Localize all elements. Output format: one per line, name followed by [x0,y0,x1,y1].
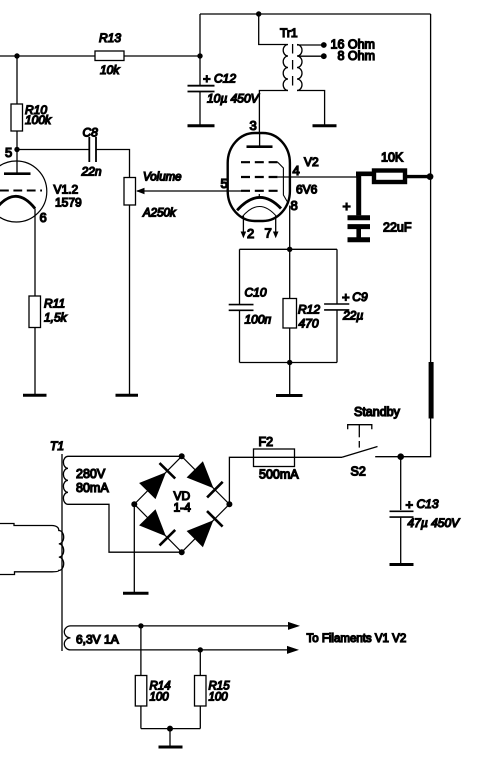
svg-text:Tr1: Tr1 [280,26,298,40]
ground: V2 cathode network [276,394,303,397]
svg-text:2: 2 [247,226,254,241]
wire: secondary top to 16 Ohm terminal [297,44,321,46]
node: hum-balance center dot [167,726,173,732]
resistor R10 [11,104,23,131]
capacitor 22uF (thick) [348,215,371,220]
terminal dot 8 Ohm [321,53,327,59]
tube V2 envelope [228,133,290,221]
node: V2 cathode network top dot [287,247,292,252]
svg-text:R13: R13 [99,31,121,45]
wire: C13 top lead [400,457,402,510]
switch S2 actuator [348,425,372,430]
svg-text:4: 4 [293,163,300,178]
svg-text:10µ 450V: 10µ 450V [207,92,260,106]
wire: R15 top lead [199,650,201,676]
node: bridge bottom vertex dot [179,549,185,555]
bridge rectifier VD 1-4 frame [134,456,229,552]
V1 plate lead [16,150,18,173]
wire: top rail left vertical [199,14,201,85]
V2 grid row 3 (control) [241,190,278,192]
node: bridge right vertex dot [226,501,232,507]
svg-text:1-4: 1-4 [174,501,192,515]
svg-text:10k: 10k [100,63,120,77]
V2 beam-plate bus to cathode [278,162,288,201]
svg-text:6: 6 [40,210,47,225]
potentiometer Volume A250k [124,178,136,206]
svg-text:1579: 1579 [55,196,82,210]
resistor R13 [95,51,124,61]
diode VD3 (left-bottom) [139,509,166,536]
svg-text:+: + [406,497,414,512]
svg-text:T1: T1 [50,439,64,453]
wire: pot bottom to ground [129,205,131,395]
Volume wiper arrow [136,188,145,195]
wire: switch to rail node [375,456,401,458]
ground: Volume pot [116,394,139,397]
wire: 280V bottom to bridge bottom vertex [68,504,182,552]
wire: cathode network bottom rail [240,362,338,364]
T1 HV secondary winding 280V [63,456,68,504]
svg-text:100: 100 [150,692,170,704]
svg-text:F2: F2 [259,435,274,449]
wire: C10 top lead [239,249,241,304]
wire: V2 pin 8 cathode down to RC network [289,206,291,250]
svg-text:R12: R12 [298,303,320,317]
svg-text:1,5k: 1,5k [44,311,68,325]
wire: HT rail lower vertical to switch node [401,419,431,457]
node: 10K to HT rail dot [427,173,434,180]
svg-text:80mA: 80mA [76,481,109,495]
V2 grid row 2 (screen) [241,176,278,178]
wire: C9 top lead [336,249,338,304]
svg-text:8: 8 [291,198,298,213]
ground: C13 [390,563,414,566]
wire: node to C8 [17,149,89,151]
wire: top rail to Tr1 primary [259,14,288,45]
svg-text:10K: 10K [381,151,404,165]
node: R14 tap dot [138,623,143,628]
wire: V2 pin 4 (screen) to 10K node [278,176,357,178]
wire: filament bottom wire [71,649,288,651]
svg-text:22µ: 22µ [342,309,363,323]
svg-text:100: 100 [209,692,229,704]
svg-text:V1.2: V1.2 [54,183,79,197]
V2 cathode [237,197,281,210]
V2 cathode stub [258,194,260,198]
resistor R14 [135,676,147,707]
capacitor C8 [89,137,96,162]
node: bridge top vertex dot [179,453,185,459]
ground: R11 [23,394,47,397]
svg-text:S2: S2 [351,465,366,479]
wire: hum-balance bottom rail [141,728,200,730]
capacitor C9 [324,304,349,310]
svg-text:3: 3 [250,118,257,133]
wire: R11 bottom lead [34,328,36,395]
wire: Tr1 primary bottom to V2 plate (pin 3) [259,91,288,134]
resistor R15 [195,676,207,707]
wire: R10 top lead [16,56,18,104]
svg-text:22uF: 22uF [383,221,412,235]
Tr1 core [292,44,294,91]
arrow: filament top [288,622,300,630]
resistor 10K (grid stopper, thick) [356,172,373,177]
wire: bridge right vertex up to fuse [229,457,253,504]
svg-text:+: + [342,290,350,305]
node: Tr1 primary tap dot on top rail [256,11,261,16]
wire: C10 bottom lead [239,310,241,362]
svg-text:C9: C9 [352,290,368,304]
svg-text:6,3V 1A: 6,3V 1A [76,633,119,647]
wire: R14 top lead [140,626,142,676]
wire: HT rail thick section [429,362,434,419]
svg-text:A250k: A250k [142,208,177,220]
terminal dot 16 Ohm [321,42,327,48]
svg-text:V2: V2 [304,155,319,169]
svg-text:280V: 280V [76,467,106,481]
svg-text:R11: R11 [44,297,65,311]
capacitor C12 [188,86,215,92]
V1 cathode [0,196,35,208]
switch S2 blade [342,447,378,458]
Tr1 secondary winding [297,45,302,91]
wire: grid wire from Volume wiper to V2 pin 5 [137,190,241,192]
svg-text:+: + [343,198,351,214]
node: R15 tap dot [198,647,203,652]
arrow: filament bottom [287,646,299,654]
capacitor C10 [229,305,254,311]
wire: R14 bottom lead [140,706,142,729]
resistor R12 [283,299,297,329]
wire: R15 bottom lead [199,706,201,729]
wire: R12 top lead [289,249,291,298]
node: bridge left vertex dot [131,501,137,507]
svg-text:100п: 100п [245,313,272,327]
svg-text:Volume: Volume [143,172,182,184]
fuse F2 [254,456,295,458]
svg-text:8 Ohm: 8 Ohm [338,49,376,63]
svg-text:To Filaments V1 V2: To Filaments V1 V2 [307,633,407,645]
wire: 280V top to bridge top vertex [68,455,182,457]
svg-text:500mA: 500mA [259,468,299,482]
diode VD1 (left-top) [139,472,166,499]
T1 core [61,454,63,651]
wire: R13 to C12 node [124,55,200,57]
ground: hum-balance [159,746,183,749]
wire: B+ feed from left edge to R13 [0,55,95,57]
wire: R10 bottom lead [16,131,18,150]
ground: Tr1 secondary [313,124,337,127]
wire: HT rail right vertical [430,14,432,363]
V2 grid row 1 (beam plates) [241,161,278,163]
capacitor C13 [390,511,414,517]
wire: top horizontal rail [200,13,431,15]
resistor R11 [29,296,41,328]
ground: 22uF (thick bar) [348,237,371,242]
svg-text:7: 7 [265,226,272,241]
svg-text:470: 470 [299,317,319,331]
node: C12 top junction dot [197,53,202,58]
svg-text:Standby: Standby [354,405,401,419]
wire: V1 cathode (pin 6) to R11 [34,209,36,297]
svg-text:C10: C10 [245,286,267,300]
wire: filament top wire [71,625,289,627]
diode VD4 (bottom-right) [187,520,214,547]
Tr1 primary winding [283,45,288,91]
wire: C13 bottom lead [400,517,402,563]
svg-text:C13: C13 [417,497,439,511]
wire: R12 bottom lead [289,328,291,363]
svg-text:22n: 22n [81,165,102,179]
V2 heater pin 2 lead with arrow [242,216,244,233]
V1 grid (dashed, from left edge) [0,190,42,192]
V2 anode plate [247,145,273,148]
wire: center tap to ground [169,729,171,746]
svg-text:C8: C8 [83,126,99,140]
node: R10 junction to V1 plate [14,147,19,152]
wire: bridge left vertex to ground [133,504,135,592]
V1 anode plate [4,172,31,175]
svg-text:+: + [203,71,211,86]
svg-text:47µ 450V: 47µ 450V [408,516,461,530]
svg-text:5: 5 [5,145,12,160]
svg-text:100k: 100k [25,113,52,127]
ground: bridge negative [123,592,149,595]
ground: under C12 [188,124,215,127]
wire: secondary tap to 8 Ohm terminal [299,55,322,57]
wire: secondary bottom to ground [297,91,325,126]
wire: C12 bottom lead [199,92,201,126]
wire: bottom node to ground [289,363,291,395]
T1 6.3V filament winding [64,626,70,650]
V2 heater pin 7 lead with arrow [275,216,277,233]
svg-text:C12: C12 [214,72,236,86]
tube V1.2 envelope (clipped at left edge) [0,161,47,222]
V2 plate lead [259,134,261,146]
V2 heater arc [242,207,277,218]
wire: C9 bottom lead [336,310,338,363]
wire: C8 to Volume pot top [96,150,130,178]
svg-text:6V6: 6V6 [296,183,318,197]
wire: cathode network top rail [240,248,338,250]
node: R13/R10 junction dot [14,53,19,58]
node: cathode network bottom dot [287,360,292,365]
T1 mains primary (from left edge) [0,524,64,575]
node: switch output dot [397,453,404,460]
wire: fuse to switch [295,456,343,458]
diode VD2 (top-right) [187,461,214,488]
svg-text:5: 5 [221,176,228,191]
